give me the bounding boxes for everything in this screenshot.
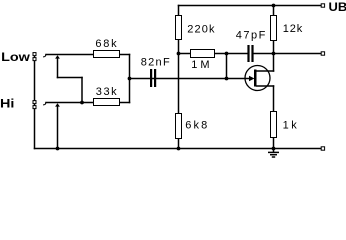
svg-text:220k: 220k bbox=[187, 23, 215, 35]
svg-text:68k: 68k bbox=[95, 38, 117, 50]
svg-text:Low: Low bbox=[1, 50, 31, 64]
svg-text:33k: 33k bbox=[96, 86, 117, 98]
svg-text:82nF: 82nF bbox=[141, 57, 170, 69]
svg-text:1k: 1k bbox=[283, 120, 298, 132]
svg-text:47pF: 47pF bbox=[236, 30, 266, 42]
svg-text:Hi: Hi bbox=[0, 97, 14, 111]
svg-text:12k: 12k bbox=[283, 23, 303, 35]
svg-text:UB: UB bbox=[329, 0, 346, 13]
svg-text:1M: 1M bbox=[191, 59, 209, 71]
svg-text:6k8: 6k8 bbox=[185, 120, 207, 132]
